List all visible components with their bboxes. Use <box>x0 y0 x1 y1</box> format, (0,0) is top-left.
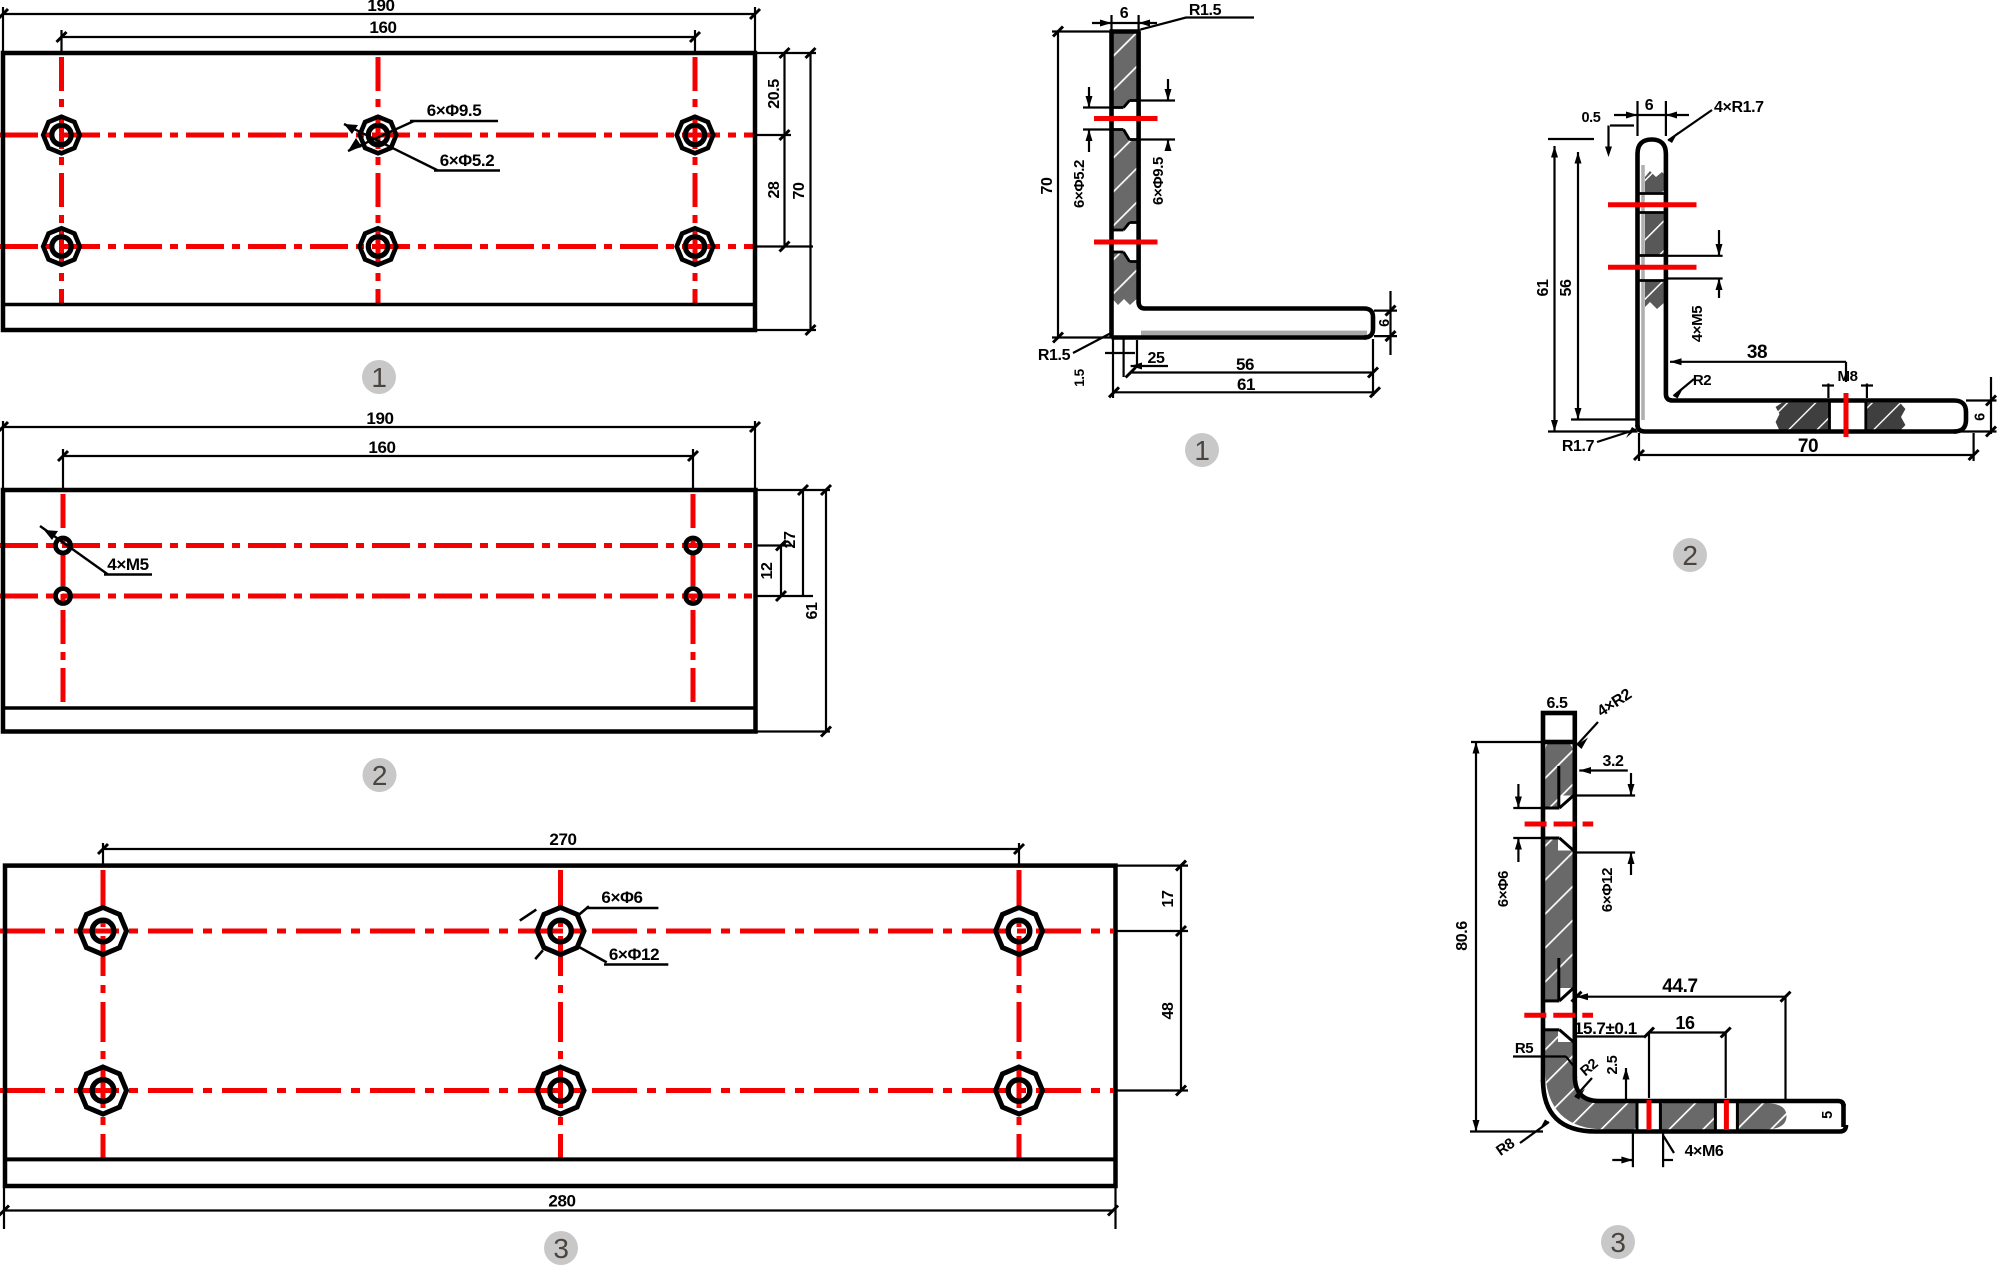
svg-text:3: 3 <box>553 1233 568 1264</box>
svg-text:4×M5: 4×M5 <box>1689 306 1706 342</box>
svg-text:70: 70 <box>1039 177 1056 194</box>
svg-text:6×Φ12: 6×Φ12 <box>609 945 659 964</box>
svg-text:16: 16 <box>1675 1013 1695 1033</box>
svg-text:12: 12 <box>759 562 776 579</box>
svg-text:R1.7: R1.7 <box>1562 438 1595 455</box>
svg-text:6: 6 <box>1377 319 1393 327</box>
svg-text:R1.5: R1.5 <box>1038 347 1071 364</box>
svg-text:48: 48 <box>1160 1002 1177 1019</box>
svg-text:25: 25 <box>1148 350 1165 367</box>
svg-text:2: 2 <box>372 760 387 791</box>
svg-text:70: 70 <box>791 182 808 199</box>
svg-text:R5: R5 <box>1515 1040 1533 1057</box>
svg-text:4×M6: 4×M6 <box>1685 1143 1724 1160</box>
svg-text:61: 61 <box>1535 279 1552 296</box>
svg-text:6: 6 <box>1973 413 1989 421</box>
svg-text:1: 1 <box>1194 435 1209 466</box>
svg-text:61: 61 <box>804 602 821 619</box>
svg-text:28: 28 <box>766 181 783 198</box>
svg-text:20.5: 20.5 <box>766 79 783 109</box>
svg-text:160: 160 <box>368 438 395 457</box>
svg-text:6×Φ9.5: 6×Φ9.5 <box>427 101 482 120</box>
svg-text:190: 190 <box>366 409 393 428</box>
svg-text:R1.5: R1.5 <box>1189 2 1222 19</box>
svg-text:27: 27 <box>782 531 799 548</box>
svg-text:17: 17 <box>1160 890 1177 907</box>
svg-text:R2: R2 <box>1693 372 1711 389</box>
svg-text:5: 5 <box>1820 1111 1836 1119</box>
svg-text:38: 38 <box>1747 342 1767 363</box>
svg-text:160: 160 <box>369 18 396 37</box>
svg-text:15.7±0.1: 15.7±0.1 <box>1574 1019 1637 1038</box>
svg-text:2.5: 2.5 <box>1605 1055 1621 1074</box>
svg-text:80.6: 80.6 <box>1454 921 1471 951</box>
svg-text:2: 2 <box>1682 540 1697 571</box>
svg-text:6×Φ5.2: 6×Φ5.2 <box>440 151 495 170</box>
svg-text:6×Φ5.2: 6×Φ5.2 <box>1071 160 1088 208</box>
svg-text:6×Φ9.5: 6×Φ9.5 <box>1150 157 1167 205</box>
svg-text:6×Φ6: 6×Φ6 <box>1495 871 1512 907</box>
svg-text:4×M5: 4×M5 <box>107 555 148 574</box>
svg-text:280: 280 <box>548 1192 575 1211</box>
svg-text:1: 1 <box>371 362 386 393</box>
svg-text:190: 190 <box>367 0 394 15</box>
svg-text:6: 6 <box>1120 5 1129 22</box>
svg-text:6.5: 6.5 <box>1546 695 1568 712</box>
svg-text:6: 6 <box>1645 97 1654 114</box>
svg-text:6×Φ6: 6×Φ6 <box>601 888 642 907</box>
svg-text:M8: M8 <box>1837 368 1857 385</box>
svg-text:1.5: 1.5 <box>1072 368 1087 386</box>
svg-text:4×R1.7: 4×R1.7 <box>1714 99 1764 116</box>
svg-text:3: 3 <box>1610 1227 1625 1258</box>
svg-text:56: 56 <box>1558 279 1575 296</box>
svg-text:0.5: 0.5 <box>1582 110 1601 126</box>
svg-text:56: 56 <box>1236 355 1254 374</box>
svg-text:61: 61 <box>1237 375 1255 394</box>
svg-text:44.7: 44.7 <box>1662 976 1697 997</box>
svg-text:6×Φ12: 6×Φ12 <box>1599 868 1616 912</box>
svg-text:3.2: 3.2 <box>1602 753 1624 770</box>
svg-text:270: 270 <box>549 830 576 849</box>
svg-text:70: 70 <box>1798 436 1818 457</box>
